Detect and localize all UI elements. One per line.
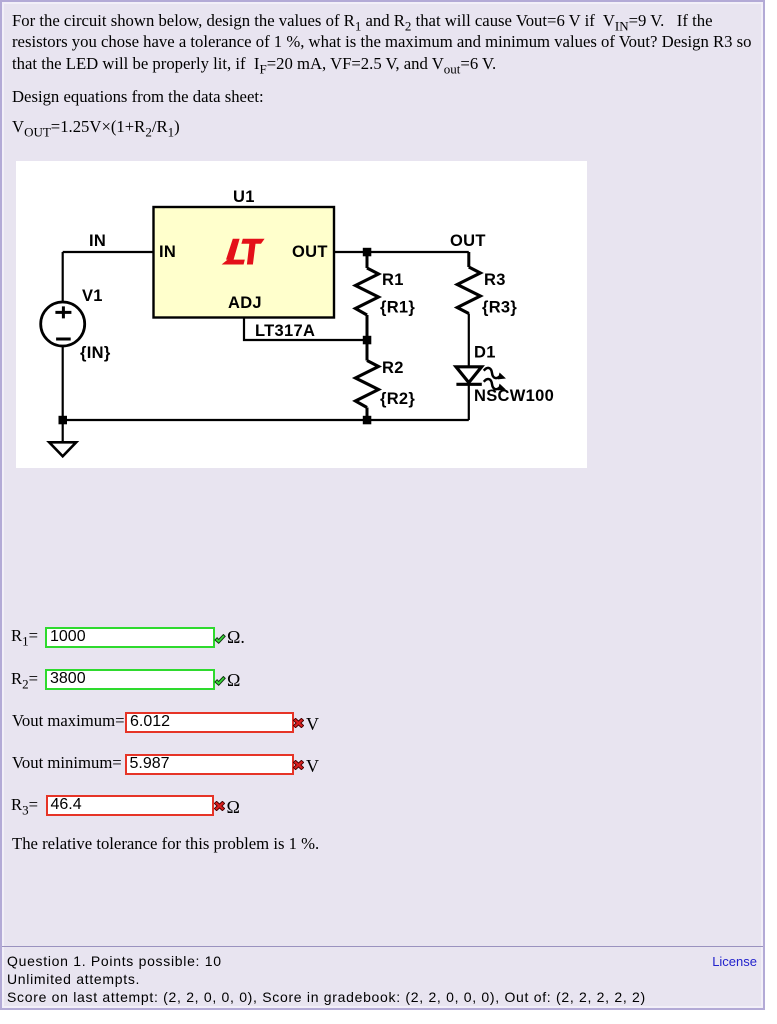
- resistor R2: [356, 361, 379, 408]
- wire LED to bottom rail: [468, 384, 470, 420]
- wire R2 top stub: [366, 340, 369, 361]
- wire R1 top stub: [366, 252, 369, 268]
- wire ADJ: [244, 318, 367, 341]
- LED light arrow 2: [483, 378, 508, 393]
- problem statement: [12, 10, 752, 75]
- wire IN from V1 to U1: [63, 251, 154, 253]
- svg-text:{R1}: {R1}: [380, 298, 415, 316]
- junction at R1 top: [363, 248, 372, 256]
- wire R3 to LED: [468, 314, 470, 368]
- LED light arrow 1: [483, 367, 508, 382]
- answer row Vout maximum: [12, 711, 124, 731]
- wire V1 bottom to ground junction: [62, 346, 64, 420]
- svg-text:IN: IN: [89, 232, 106, 250]
- svg-text:NSCW100: NSCW100: [474, 387, 554, 405]
- resistor R1: [356, 268, 379, 315]
- voltage source V1: [41, 302, 85, 346]
- svg-text:V1: V1: [82, 287, 103, 305]
- wire bottom rail: [63, 419, 469, 421]
- junction at ADJ/R1/R2: [363, 336, 372, 345]
- resistor R3: [457, 267, 480, 314]
- red x icon: [293, 718, 303, 727]
- svg-text:{R3}: {R3}: [482, 298, 517, 316]
- tolerance note: [12, 834, 319, 854]
- license link: [712, 954, 757, 969]
- design equations heading: [12, 87, 264, 107]
- wire R2 bottom stub: [366, 408, 369, 421]
- wire ground stub: [62, 420, 64, 443]
- svg-text:R2: R2: [382, 359, 404, 377]
- answer row Vout minimum: [12, 753, 122, 773]
- svg-text:{R2}: {R2}: [380, 390, 415, 408]
- svg-text:D1: D1: [474, 344, 496, 362]
- svg-text:U1: U1: [233, 188, 255, 206]
- green check icon: [215, 677, 225, 686]
- red x icon: [293, 760, 303, 769]
- LT logo right glyph: [241, 239, 264, 265]
- green check icon: [215, 634, 225, 643]
- op-amp U1 regulator box: [154, 207, 335, 318]
- LT logo left glyph: [222, 239, 245, 265]
- wire R1 bottom stub: [366, 315, 369, 340]
- svg-text:OUT: OUT: [292, 243, 328, 261]
- junction at ground: [59, 416, 68, 425]
- footer text: [2, 952, 763, 1006]
- footer separator: [2, 946, 763, 947]
- svg-text:LT317A: LT317A: [255, 322, 315, 340]
- svg-text:OUT: OUT: [450, 232, 486, 250]
- wire R3 top stub: [467, 252, 470, 267]
- equation: [12, 117, 180, 137]
- wire OUT from U1 to R3 branch: [334, 251, 469, 253]
- answer row R2: [11, 669, 38, 689]
- svg-text:{IN}: {IN}: [80, 344, 111, 362]
- ground: [49, 442, 76, 456]
- svg-text:IN: IN: [159, 243, 176, 261]
- circuit schematic canvas: [16, 161, 587, 468]
- svg-text:R3: R3: [484, 271, 506, 289]
- svg-text:ADJ: ADJ: [228, 294, 262, 312]
- red x icon: [214, 801, 224, 810]
- LED D1: [456, 367, 482, 383]
- svg-text:R1: R1: [382, 271, 404, 289]
- answer row R1: [11, 626, 38, 646]
- answer row R3: [11, 795, 38, 815]
- junction at R2 bottom: [363, 416, 372, 425]
- wire V1 top: [62, 252, 64, 302]
